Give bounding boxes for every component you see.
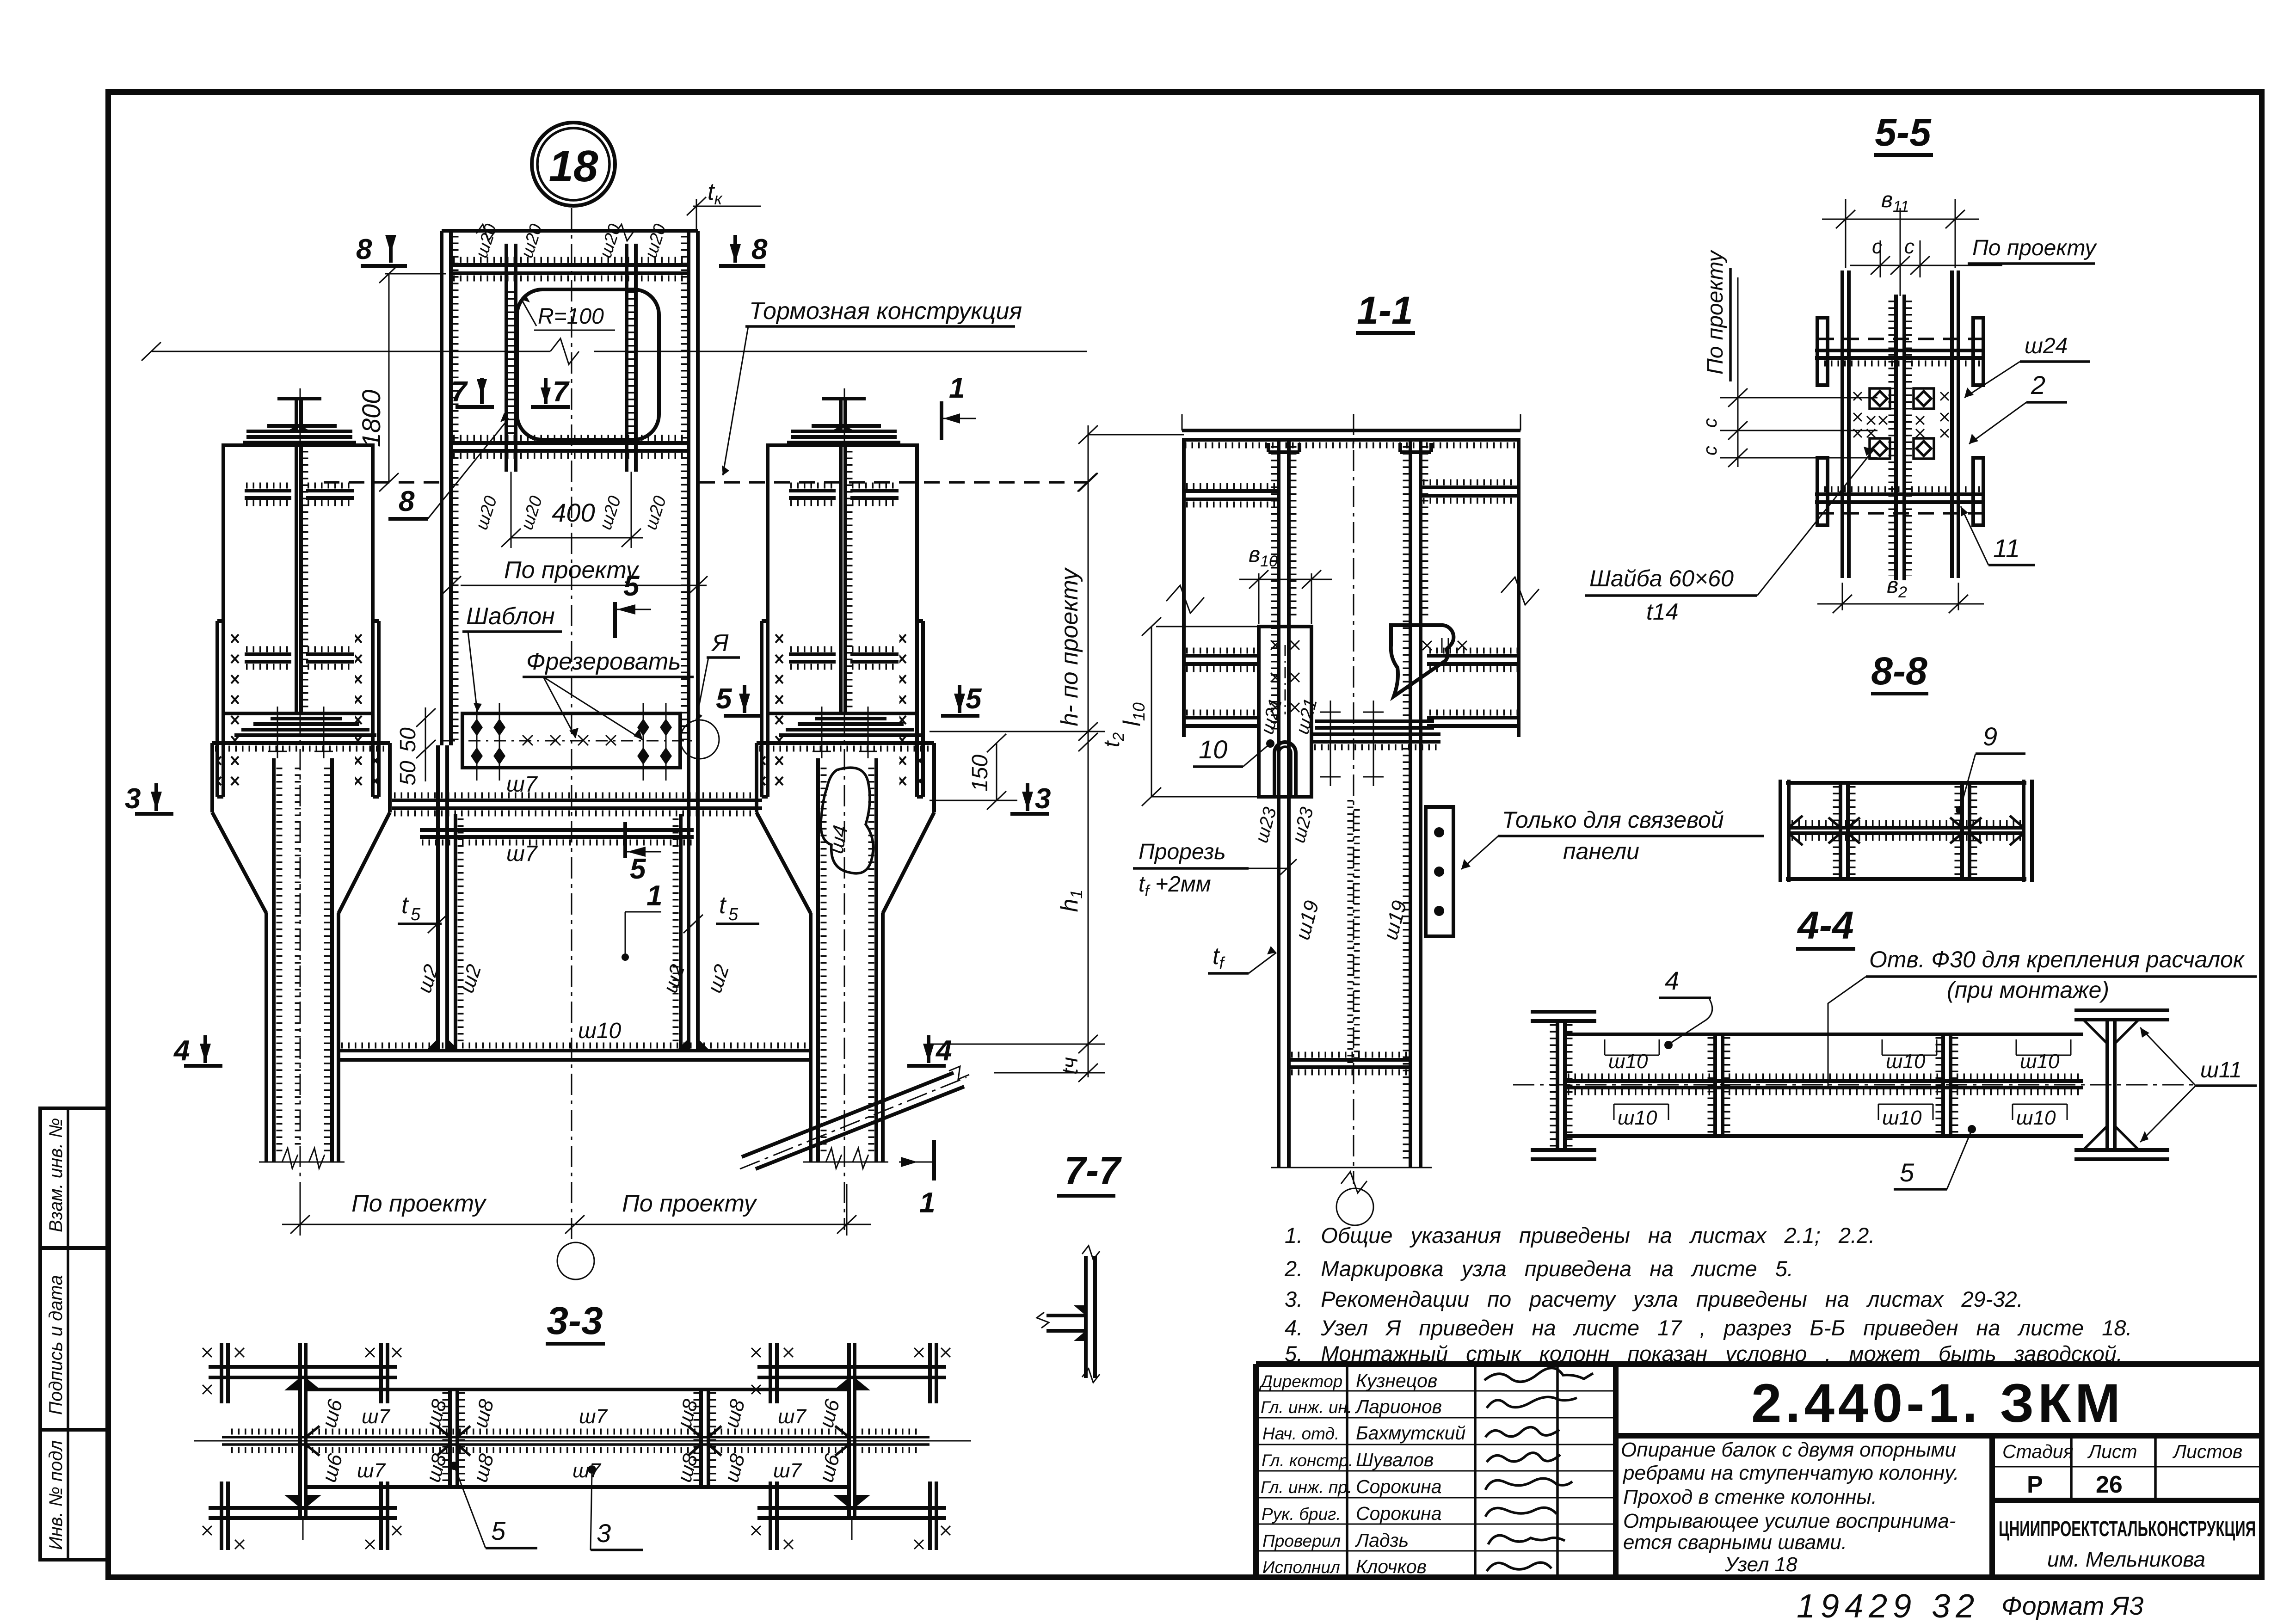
section mark 4 right [907,1035,952,1067]
right web top anchor plate [1398,443,1402,452]
svg-text:19429 32: 19429 32 [1797,1588,1980,1623]
signatures squiggles [1484,1368,1593,1571]
break marks on top extensions [476,224,495,241]
svg-text:Кузнецов: Кузнецов [1356,1370,1437,1391]
svg-text:ш24: ш24 [2025,334,2068,358]
svg-text:t: t [719,892,727,919]
ш10 labels [1608,1050,2060,1129]
right web [1409,440,1412,1168]
web opening (Проход) R=100 [517,289,659,440]
node circle 18 [532,123,615,206]
svg-text:ш7: ш7 [362,1405,391,1428]
axis [1513,1084,2197,1086]
svg-text:Исполнил: Исполнил [1262,1558,1340,1577]
stiffener bar left [505,244,508,472]
x hatch columns [228,627,243,788]
svg-text:4: 4 [1665,966,1679,995]
svg-text:Отв. Ф30 для крепления расчало: Отв. Ф30 для крепления расчалок [1869,947,2245,972]
right column (mirror) [751,1343,950,1550]
slot (Прорезь) [1274,742,1296,797]
notes [1284,1223,2132,1366]
svg-text:2: 2 [2031,370,2045,400]
svg-text:5. Монтажный стык колонн по: 5. Монтажный стык колонн показан условно… [1285,1341,2123,1366]
svg-text:Фрезеровать: Фрезеровать [526,648,681,675]
svg-text:5-5: 5-5 [1875,111,1932,154]
svg-text:ш10: ш10 [578,1019,622,1043]
ledges ш7 bands [392,799,762,802]
svg-text:R=100: R=100 [538,304,604,329]
svg-text:5: 5 [728,905,739,924]
section mark 8 right [719,234,768,266]
svg-text:Формат Я3: Формат Я3 [2001,1591,2143,1620]
corner channel bars [1817,318,1983,525]
svg-text:ш10: ш10 [1608,1050,1648,1073]
cap plates [267,424,337,428]
svg-text:3: 3 [1035,783,1051,815]
svg-text:ш7: ш7 [579,1405,608,1428]
ш10 stiffener [340,1049,809,1052]
svg-text:Бахмутский: Бахмутский [1356,1422,1465,1444]
svg-text:панели: панели [1563,838,1639,864]
beam between [306,1388,849,1391]
top flange [1182,429,1520,432]
svg-text:Гл. констр.: Гл. констр. [1262,1451,1353,1470]
plate 10 [1259,627,1311,797]
svg-text:8: 8 [399,486,415,517]
side bracket plates [215,621,219,797]
svg-text:ш10: ш10 [1886,1050,1926,1073]
svg-text:Тормозная конструкция: Тормозная конструкция [749,298,1022,325]
stiffener 1 [245,489,291,492]
lower stiffener [1289,1058,1410,1062]
По проекту bottom dimension [300,1184,301,1236]
svg-text:11: 11 [1993,534,2020,563]
ш2 labels [413,962,733,996]
B2 dimension bottom [1842,583,1843,610]
svg-text:ш10: ш10 [1882,1107,1922,1129]
right flange [1950,270,1954,578]
svg-text:По проекту: По проекту [1703,250,1728,375]
svg-text:1: 1 [646,880,662,912]
150 dimension [996,743,997,800]
svg-text:ш7: ш7 [773,1459,802,1482]
ш20 labels top [472,222,671,532]
B11 dimension top [1845,199,1847,268]
central web [1894,295,1898,580]
svg-text:ш11: ш11 [2200,1058,2242,1082]
svg-text:50: 50 [396,761,420,786]
title block [1256,1364,2262,1577]
section mark 5 upper [615,570,651,638]
right dimension chain [929,425,1184,1082]
stiffener 2 [245,652,291,656]
svg-text:ш7: ш7 [506,842,538,866]
svg-text:По проекту: По проекту [351,1190,487,1217]
lower column flanges [436,745,440,1051]
svg-text:По проекту: По проекту [622,1190,757,1217]
section mark 5 lower [625,822,661,885]
Я detail circle [680,720,719,759]
svg-text:Рук. бриг.: Рук. бриг. [1262,1505,1341,1524]
svg-text:По проекту: По проекту [504,557,640,584]
label 1 with dot leader [625,911,661,913]
stiffener bar right [625,244,628,472]
svg-text:18: 18 [549,141,598,191]
svg-text:tf +2мм: tf +2мм [1139,872,1211,900]
svg-text:Директор: Директор [1259,1372,1342,1391]
svg-text:5: 5 [491,1516,506,1545]
svg-text:ш4: ш4 [825,824,852,855]
diagonal brace top right [740,1066,969,1169]
svg-text:4-4: 4-4 [1797,904,1853,947]
corner bars [220,1343,223,1403]
section mark 1 top [940,401,943,440]
svg-text:Отрывающее усилие воспринима-: Отрывающее усилие воспринима- [1623,1510,1956,1532]
tk dimension [696,199,697,231]
svg-text:8-8: 8-8 [1871,649,1927,693]
left column [203,1343,401,1550]
internal stiffeners [1713,1034,1717,1136]
svg-text:3-3: 3-3 [547,1299,603,1342]
svg-text:1: 1 [919,1187,935,1219]
rail cross marks [268,707,333,758]
svg-text:3: 3 [125,783,141,815]
section mark 8 left [356,234,407,266]
svg-text:1800: 1800 [357,390,386,448]
weld clusters on axis [295,768,301,1147]
upper column right flange [687,231,690,745]
section mark 1 bottom [932,1140,936,1180]
svg-text:По проекту: По проекту [1972,236,2097,260]
svg-text:t: t [401,892,409,919]
svg-text:Взам. инв. №: Взам. инв. № [46,1118,66,1232]
dashed crane level line [324,481,440,484]
svg-text:3: 3 [597,1518,611,1548]
svg-text:Прорезь: Прорезь [1139,840,1226,864]
svg-text:8: 8 [356,234,372,265]
washers with diamonds [1870,388,1934,459]
svg-text:4: 4 [935,1035,952,1067]
svg-text:tч: tч [1058,1057,1083,1075]
svg-text:Опирание балок с двумя опорным: Опирание балок с двумя опорными [1621,1439,1956,1461]
left web top anchor plate [1267,443,1270,452]
svg-text:Я: Я [711,630,729,657]
svg-text:Узел 18: Узел 18 [1724,1553,1797,1576]
svg-text:50: 50 [396,727,420,752]
description [1621,1439,1959,1576]
section mark 3 left [125,783,173,815]
section mark 3 right [1010,783,1051,815]
ш4 blob on right beam [821,768,873,873]
stiffener row 1 [1184,489,1279,493]
left web [1277,440,1280,1168]
shaft [265,913,268,1162]
staff rows [1256,1391,1616,1551]
middle double line [1789,826,2024,830]
svg-text:2.440-1. ЗКМ: 2.440-1. ЗКМ [1751,1373,2124,1434]
svg-text:Листов: Листов [2172,1441,2242,1462]
gusset plate [1426,807,1453,936]
svg-text:Шувалов: Шувалов [1356,1449,1434,1470]
svg-text:4: 4 [173,1035,190,1067]
left margin boxes [40,1108,108,1560]
shaft axis [300,388,301,1230]
svg-text:Проход в стенке колонны.: Проход в стенке колонны. [1623,1486,1877,1508]
svg-text:7: 7 [451,376,468,408]
svg-text:2. Маркировка узла привед: 2. Маркировка узла приведена на листе 5. [1284,1256,1793,1281]
section mark 5 pair at right beam [716,683,982,716]
svg-text:ш7: ш7 [357,1459,386,1482]
svg-text:(при монтаже): (при монтаже) [1947,977,2109,1003]
svg-text:5: 5 [966,683,982,715]
corner gussets [1789,816,2024,845]
thin axis [194,1440,971,1442]
c c dimension [1880,240,1881,277]
svg-text:9: 9 [1983,722,1997,751]
svg-text:Шайба 60×60: Шайба 60×60 [1589,566,1734,591]
svg-text:Стадия: Стадия [2002,1441,2074,1462]
thin level line across [151,351,550,352]
svg-text:Гл. инж. ин.: Гл. инж. ин. [1261,1398,1352,1417]
hook bracket [1391,625,1454,696]
svg-text:им. Мельникова: им. Мельникова [2047,1547,2205,1571]
center axis [1353,414,1354,1184]
web [295,445,298,713]
svg-text:1: 1 [949,372,965,404]
welds [1791,820,2021,826]
lower column center weld hatch [1348,800,1354,1064]
template plate Шаблон [396,703,696,786]
top plate [1818,338,1984,340]
end plates [1779,780,1782,882]
b10 dimension [1258,573,1260,624]
internal verticals [1839,783,1842,879]
svg-text:Ларионов: Ларионов [1354,1396,1442,1417]
section mark 4 left [173,1035,222,1067]
node circle bottom [557,1242,594,1279]
bottom plate [1817,486,1983,492]
rail tee above cap [277,397,321,400]
left I-end [1531,1010,1596,1014]
section titles [547,111,1932,1342]
svg-text:с: с [1699,418,1721,428]
svg-text:Инв. № подл: Инв. № подл [46,1440,66,1550]
svg-text:Подпись и дата: Подпись и дата [46,1275,66,1415]
1800 dimension [388,274,390,482]
svg-text:ш7: ш7 [572,1459,602,1482]
stiffener row 3 [1184,716,1259,719]
outer walls [1182,440,1186,737]
svg-text:с: с [1904,235,1914,258]
svg-text:Ладзь: Ладзь [1354,1530,1409,1551]
svg-text:5: 5 [1900,1158,1914,1187]
50 50 dims [425,707,426,781]
bottom breaks [259,1162,345,1163]
top beam band ш20 [451,263,689,267]
internal stiffeners [448,1389,452,1487]
svg-text:3. Рекомендации по расчету: 3. Рекомендации по расчету узла приведен… [1285,1287,2023,1311]
stiffener row 2 [1184,654,1259,658]
main body [1565,1033,2083,1036]
svg-text:Шаблон: Шаблон [466,603,555,630]
section marks 7-7 [451,376,570,408]
rail crosses [1320,701,1384,786]
right I-end [2074,1008,2169,1012]
svg-text:t14: t14 [1646,599,1679,625]
svg-text:Лист: Лист [2087,1441,2137,1462]
break marks on outer walls [1166,585,1204,613]
svg-text:с: с [1872,235,1882,258]
svg-text:7: 7 [553,376,570,408]
svg-text:5: 5 [716,683,733,715]
svg-text:8: 8 [751,234,768,265]
lower band ш20 [451,441,689,445]
svg-text:Гл. инж. пр.: Гл. инж. пр. [1261,1478,1352,1497]
svg-text:Сорокина: Сорокина [1356,1503,1442,1524]
svg-text:Только для связевой: Только для связевой [1502,807,1724,833]
svg-text:7-7: 7-7 [1064,1149,1122,1192]
svg-text:Проверил: Проверил [1262,1531,1341,1550]
left flange [1840,270,1844,578]
l10 dimension [1151,627,1152,797]
svg-text:26: 26 [2096,1471,2123,1498]
svg-text:5: 5 [411,905,421,924]
upper column left flange [440,231,443,745]
svg-text:400: 400 [552,498,595,527]
svg-text:1-1: 1-1 [1357,289,1413,332]
svg-text:4. Узел Я приведен на лист: 4. Узел Я приведен на листе 17 , разрез … [1285,1316,2132,1340]
svg-text:h- по проекту: h- по проекту [1056,567,1083,726]
svg-text:150: 150 [968,755,992,792]
body [1786,781,2026,785]
cap plates of lower column [1315,719,1434,723]
svg-text:ш10: ш10 [2020,1050,2060,1073]
svg-text:10: 10 [1199,735,1227,764]
svg-text:ш7: ш7 [778,1405,807,1428]
svg-text:ЦНИИПРОЕКТСТАЛЬКОНСТРУКЦИЯ: ЦНИИПРОЕКТСТАЛЬКОНСТРУКЦИЯ [1999,1517,2256,1541]
svg-text:Нач. отд.: Нач. отд. [1262,1424,1339,1443]
svg-text:Р: Р [2027,1471,2043,1498]
skirt [210,743,214,812]
x marks around washers [1853,392,1949,437]
svg-text:ш10: ш10 [2016,1107,2056,1129]
svg-text:1. Общие указания приведе: 1. Общие указания приведены на листах 2.… [1285,1223,1875,1248]
weld labels [318,1396,844,1484]
400 dimension [511,537,643,539]
column center axis [571,208,572,1243]
svg-text:ш10: ш10 [1618,1107,1657,1129]
milled cap stack [271,717,342,720]
svg-text:ребрами на ступенчатую колонну: ребрами на ступенчатую колонну. [1622,1462,1959,1484]
svg-text:5: 5 [630,853,646,885]
bottom [1271,1167,1432,1168]
svg-text:ш7: ш7 [506,772,538,797]
svg-text:с: с [1699,446,1721,455]
svg-text:Клочков: Клочков [1356,1556,1427,1577]
upper column top edge [442,229,698,233]
svg-text:ется сварными швами.: ется сварными швами. [1623,1531,1847,1554]
svg-text:Сорокина: Сорокина [1356,1476,1442,1497]
body box [223,445,373,713]
